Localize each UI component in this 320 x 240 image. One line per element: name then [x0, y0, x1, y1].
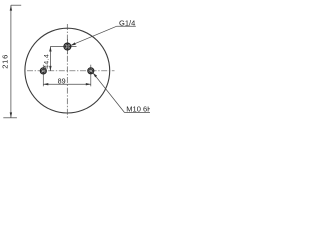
label G1/4 leader line — [71, 26, 116, 45]
dimension 44.4 top arrowhead — [49, 47, 51, 52]
label G1/4 leader arrowhead — [71, 42, 76, 45]
port G1/4 outer circle — [64, 43, 71, 50]
horizontal centerline — [27, 70, 115, 72]
svg-text:89: 89 — [58, 76, 66, 85]
dimension 44.4 line — [49, 47, 51, 71]
dimension 89 line — [43, 83, 91, 85]
svg-text:M10 6H: M10 6H — [126, 104, 150, 113]
vertical centerline — [66, 24, 68, 118]
dimension 216 top arrowhead — [10, 5, 12, 10]
label G1/4 underline — [117, 25, 136, 27]
dimension 216 top extension line — [11, 4, 21, 6]
port G1/4 inner circle — [66, 45, 70, 49]
right hole M10 inner circle — [89, 69, 92, 72]
svg-text:216: 216 — [0, 54, 9, 69]
dimension 89 left arrowhead — [43, 83, 48, 85]
left hole M10 inner circle — [42, 69, 45, 72]
left hole M10 vertical centerline / extension line — [42, 65, 44, 87]
flange outline circle — [25, 28, 110, 113]
svg-text:44.4: 44.4 — [44, 54, 51, 69]
port G1/4 crosshair vertical — [66, 39, 68, 54]
label M10 6H leader line — [93, 73, 124, 112]
svg-text:G1/4: G1/4 — [119, 18, 135, 27]
dimension 216 bottom arrowhead — [10, 112, 12, 117]
dimension 44.4 bottom arrowhead — [49, 66, 51, 71]
dimension 89 right arrowhead — [86, 83, 91, 85]
port G1/4 crosshair horizontal — [50, 46, 76, 48]
dimension 216 bottom extension line — [3, 117, 17, 119]
label M10 6H underline — [125, 112, 151, 114]
left hole M10 outer circle — [40, 68, 46, 74]
label M10 6H leader arrowhead — [93, 73, 97, 78]
dimension 216 line — [10, 5, 12, 118]
right hole M10 outer circle — [88, 68, 94, 74]
right hole M10 vertical centerline / extension line — [90, 65, 92, 87]
